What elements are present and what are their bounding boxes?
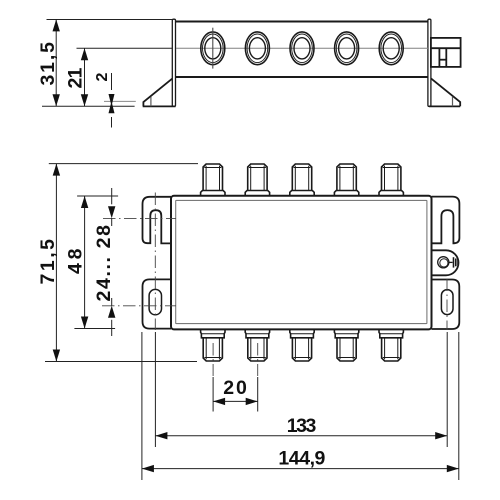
svg-text:71,5: 71,5 xyxy=(37,239,59,285)
svg-text:144,9: 144,9 xyxy=(278,447,325,469)
svg-text:133: 133 xyxy=(287,415,317,437)
svg-text:2: 2 xyxy=(94,73,111,82)
svg-text:31,5: 31,5 xyxy=(37,42,59,86)
svg-text:20: 20 xyxy=(223,377,247,399)
svg-text:21: 21 xyxy=(64,67,86,88)
